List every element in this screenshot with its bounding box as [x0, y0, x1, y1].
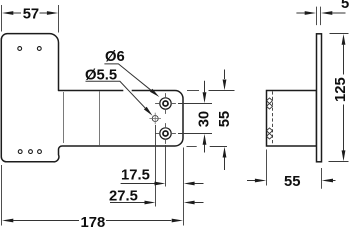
svg-text:125: 125	[333, 77, 349, 102]
dim 55 (front) extension lines	[187, 90, 199, 92]
bottom screw hole 3	[38, 150, 42, 154]
gap in arm top edge where leader crosses	[123, 89, 131, 92]
svg-text:178: 178	[81, 215, 106, 231]
side view wall plate	[317, 34, 322, 162]
dim 178	[2, 219, 13, 223]
dim 57	[2, 11, 13, 15]
svg-text:55: 55	[217, 111, 233, 127]
top screw hole left	[18, 47, 22, 51]
dim 55 (side) extension lines	[266, 150, 268, 186]
hole 1 (upper, d6)	[155, 93, 176, 114]
small hole (d5.5)	[149, 113, 161, 125]
bend line on arm (right)	[99, 91, 101, 145]
side hole mark lower	[267, 128, 273, 139]
side view hidden line	[272, 91, 274, 145]
top screw hole right	[37, 47, 41, 51]
dim 55 (front)	[224, 70, 226, 80]
dim 27.5 extension line (small hole x)	[155, 125, 157, 207]
arm end extension line	[183, 148, 185, 226]
dim 5 extension lines	[316, 7, 318, 26]
label d5.5 leader	[86, 81, 146, 108]
dim 55 (side)	[247, 180, 255, 182]
front view bracket outline	[1, 34, 183, 162]
dim 125 extension lines	[330, 33, 349, 35]
svg-text:55: 55	[284, 174, 300, 190]
bottom screw hole 2	[29, 150, 33, 154]
dim 5	[296, 12, 305, 14]
bend line on arm (left)	[63, 92, 65, 143]
hole 2 (lower, d6)	[155, 123, 176, 144]
dim 178 extension line left	[1, 165, 3, 226]
dim 17.5 extension line (hole x)	[165, 145, 167, 187]
bottom screw hole 1	[18, 150, 22, 154]
svg-text:57: 57	[23, 7, 39, 23]
label d6 leader	[104, 64, 151, 90]
svg-text:Ø6: Ø6	[105, 49, 125, 65]
svg-text:5: 5	[341, 0, 349, 12]
svg-text:17.5: 17.5	[121, 168, 150, 184]
side view arm	[267, 91, 317, 147]
svg-text:30: 30	[197, 111, 213, 127]
dim 125	[342, 34, 346, 45]
dim 30 extension lines	[178, 103, 212, 105]
dim 57 extension lines	[1, 5, 3, 32]
dim 30	[204, 81, 206, 93]
side hole mark upper	[267, 98, 273, 109]
